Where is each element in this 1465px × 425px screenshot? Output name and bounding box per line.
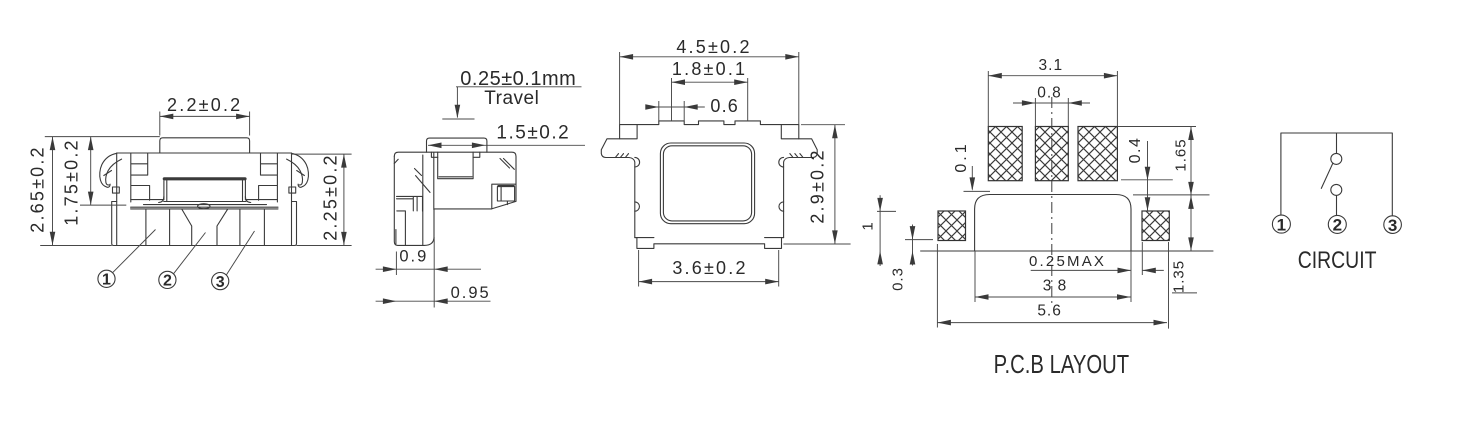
svg-text:0.8: 0.8 <box>1037 85 1062 102</box>
svg-text:0.95: 0.95 <box>451 284 491 302</box>
svg-text:1: 1 <box>860 221 877 230</box>
svg-text:1.65: 1.65 <box>1173 138 1190 171</box>
svg-text:8: 8 <box>1058 278 1067 295</box>
svg-text:CIRCUIT: CIRCUIT <box>1298 246 1377 273</box>
svg-text:2: 2 <box>1333 216 1342 235</box>
svg-text:4.5±0.2: 4.5±0.2 <box>676 37 751 57</box>
svg-text:2.2±0.2: 2.2±0.2 <box>167 95 242 115</box>
svg-text:1.8±0.1: 1.8±0.1 <box>672 59 747 79</box>
svg-text:3.6±0.2: 3.6±0.2 <box>672 258 747 278</box>
svg-text:3: 3 <box>216 274 225 291</box>
svg-text:1.75±0.2: 1.75±0.2 <box>61 138 81 226</box>
svg-text:0.9: 0.9 <box>399 248 428 266</box>
svg-text:1: 1 <box>102 272 111 289</box>
svg-text:5.6: 5.6 <box>1037 303 1062 320</box>
svg-text:P.C.B LAYOUT: P.C.B LAYOUT <box>994 350 1130 379</box>
svg-text:0.3: 0.3 <box>890 267 907 291</box>
svg-text:1: 1 <box>1277 215 1286 234</box>
svg-text:0.4: 0.4 <box>1127 137 1144 164</box>
svg-text:2.9±0.2: 2.9±0.2 <box>808 148 828 223</box>
svg-text:1.35: 1.35 <box>1171 260 1188 293</box>
svg-text:2: 2 <box>163 273 172 290</box>
svg-text:0.6: 0.6 <box>710 96 739 116</box>
svg-text:3.1: 3.1 <box>1039 57 1064 74</box>
svg-text:3: 3 <box>1388 216 1397 235</box>
svg-text:1.5±0.2: 1.5±0.2 <box>496 122 570 143</box>
svg-text:Travel: Travel <box>484 88 539 109</box>
svg-text:3: 3 <box>1043 278 1052 295</box>
svg-text:0.1: 0.1 <box>953 141 970 172</box>
svg-text:2.65±0.2: 2.65±0.2 <box>28 145 48 233</box>
svg-text:2.25±0.2: 2.25±0.2 <box>321 153 341 241</box>
svg-text:0.25MAX: 0.25MAX <box>1029 253 1106 270</box>
